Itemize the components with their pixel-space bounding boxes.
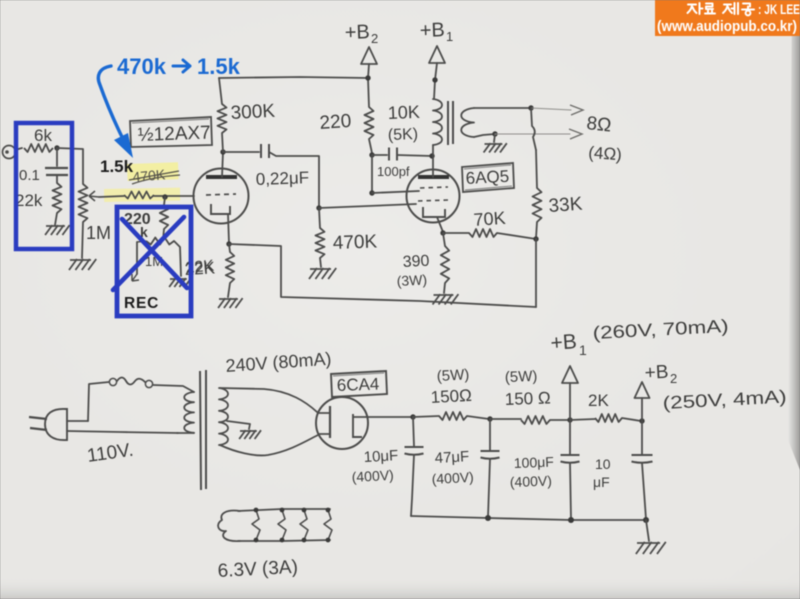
svg-text:8Ω: 8Ω xyxy=(585,113,612,136)
node filter 2 (+B1) xyxy=(567,417,572,422)
svg-text:2K: 2K xyxy=(588,391,609,410)
heater tap xyxy=(278,510,286,540)
6AQ5 screen grid dashed xyxy=(420,187,448,188)
resistor 22K 12AX7 cathode xyxy=(226,241,231,246)
svg-text:(400V): (400V) xyxy=(351,467,394,485)
svg-text:100pf: 100pf xyxy=(377,164,410,179)
node 70K/33K junction xyxy=(533,236,538,241)
mains cord xyxy=(67,420,88,422)
svg-text:150Ω: 150Ω xyxy=(430,386,472,407)
heater tap xyxy=(252,510,260,540)
svg-text:470K: 470K xyxy=(332,231,377,254)
resistor 150ohm (5W) #1 xyxy=(439,412,467,420)
6AQ5 plate xyxy=(418,175,449,179)
OPT secondary coil xyxy=(461,108,474,137)
feedback wire cathode to output rail xyxy=(229,244,536,307)
wire pot bottom to ground xyxy=(82,222,83,258)
resistor 22k (input box) xyxy=(53,183,62,213)
wire 12AX7 cathode down xyxy=(228,214,229,243)
label box 6AQ5 xyxy=(462,163,514,192)
resistor 150ohm (5W) #2 xyxy=(490,418,521,420)
wire 8ohm tap down to 33K (with hop) xyxy=(531,108,536,150)
blue annotation arrow xyxy=(98,66,124,141)
svg-text:10K: 10K xyxy=(387,102,420,123)
HV bottom lead to 6CA4 plate xyxy=(220,435,318,455)
wire to 6AQ5 control grid xyxy=(319,204,416,208)
wire plate node to 300K xyxy=(222,133,223,152)
wire 300K top to +B2 rail xyxy=(219,78,222,104)
wire 220k to rec pot xyxy=(163,229,164,240)
potentiometer 1M xyxy=(79,184,88,222)
svg-text:(4Ω): (4Ω) xyxy=(588,143,623,164)
svg-text:22k: 22k xyxy=(15,191,43,210)
node 6AQ5 cathode xyxy=(440,230,445,235)
svg-text:390: 390 xyxy=(402,253,430,271)
ground secondary xyxy=(494,134,495,142)
tube 6AQ5 envelope xyxy=(407,170,460,223)
wire to 150ohm #1 xyxy=(413,416,439,417)
HV top lead to 6CA4 plate xyxy=(220,388,317,412)
svg-text:10μF: 10μF xyxy=(363,447,398,466)
svg-text:220: 220 xyxy=(319,111,352,134)
node +B2 xyxy=(365,75,370,80)
resistor 33K xyxy=(536,150,537,188)
svg-text:(400V): (400V) xyxy=(431,469,474,487)
node grid / 220k junction xyxy=(162,194,167,199)
capacitor 10uF 400V (first) xyxy=(413,417,414,446)
+B2 arrow (psu) xyxy=(635,382,650,398)
resistor 390 cathode xyxy=(443,233,445,246)
svg-text:+B: +B xyxy=(419,19,445,42)
svg-text:(3W): (3W) xyxy=(396,271,427,289)
bottom edge shading xyxy=(0,578,800,599)
capacitor 10uF (last) xyxy=(641,421,643,454)
ground under 390 xyxy=(434,294,454,296)
yellow highlight over grid resistor xyxy=(104,188,180,202)
svg-text:6AQ5: 6AQ5 xyxy=(465,167,509,188)
node plate/coupling junction xyxy=(220,149,225,154)
wire wiper to grid resistor xyxy=(99,196,124,197)
svg-text:+B: +B xyxy=(550,330,578,355)
svg-text:6k: 6k xyxy=(34,126,52,145)
svg-text:(www.audiopub.co.kr): (www.audiopub.co.kr) xyxy=(657,19,797,35)
node screen junction xyxy=(369,190,374,195)
node filter 1 xyxy=(487,416,492,421)
transformer core xyxy=(200,370,206,490)
resistor 1.5k (was 470K) grid xyxy=(124,192,154,199)
wire node down to feedback rail xyxy=(535,239,537,307)
svg-text:½12AX7: ½12AX7 xyxy=(137,122,211,146)
+B2 arrow xyxy=(361,47,377,64)
wire 6k node to volume pot top xyxy=(57,148,83,184)
capacitor 100uF 400V xyxy=(569,420,571,454)
banner korean text "자료 제공" xyxy=(688,3,755,15)
resistor 300K xyxy=(218,104,227,133)
svg-text:1.5k: 1.5k xyxy=(197,54,241,79)
6AQ5 control grid dashed xyxy=(418,200,448,201)
blue X line 2 xyxy=(113,217,184,290)
12AX7 grid (dashed) xyxy=(206,194,236,195)
wire 100pf node down to screen xyxy=(371,155,373,192)
wire to 12AX7 grid xyxy=(154,195,194,197)
capacitor 0.1 xyxy=(56,148,58,166)
12AX7 cathode xyxy=(211,204,230,214)
svg-text:10: 10 xyxy=(595,456,611,472)
resistor 70K feedback xyxy=(443,232,469,234)
resistor 2K xyxy=(570,419,595,420)
svg-text:1: 1 xyxy=(446,29,453,44)
capacitor 0.22uF coupling xyxy=(223,151,259,153)
ground under 22K xyxy=(219,298,238,300)
wire 6AQ5 cathode to node xyxy=(437,217,443,232)
heater winding 6.3V xyxy=(218,511,240,542)
svg-text:0,22μF: 0,22μF xyxy=(255,168,309,189)
psu ground xyxy=(637,542,660,544)
svg-text:47μF: 47μF xyxy=(434,448,469,467)
faint lead to 4 ohm arrow xyxy=(495,133,570,135)
6CA4 output lead xyxy=(353,416,412,418)
right paper edge shadow xyxy=(788,0,800,470)
svg-text:+B: +B xyxy=(644,362,669,384)
svg-text:2: 2 xyxy=(670,371,677,386)
ground under 22k xyxy=(55,213,57,225)
6CA4 plates bar xyxy=(329,406,331,438)
svg-text:300K: 300K xyxy=(230,101,276,124)
psu bottom rail xyxy=(411,516,646,520)
yellow highlight over crossed 470K text xyxy=(127,162,179,181)
resistor 220 xyxy=(365,107,374,139)
secondary top lead to 8ohm tap xyxy=(474,107,531,109)
node 6k/cap junction xyxy=(54,145,59,150)
fuse xyxy=(109,378,116,385)
transformer HV secondary coil xyxy=(219,388,228,445)
ground rec right xyxy=(170,278,187,280)
rec pot arrow xyxy=(132,274,139,281)
svg-text:+B: +B xyxy=(344,21,370,44)
6CA4 cathode xyxy=(353,414,362,437)
svg-text:1: 1 xyxy=(579,342,587,358)
wire input to 6k xyxy=(15,148,22,150)
svg-text:0.1: 0.1 xyxy=(19,167,40,184)
svg-text:(400V): (400V) xyxy=(510,473,553,490)
faint lead to 8 ohm arrow xyxy=(531,108,571,110)
svg-text:6CA4: 6CA4 xyxy=(336,375,379,395)
svg-text:33K: 33K xyxy=(548,194,584,217)
6AQ5 cathode xyxy=(423,207,445,217)
wire fuse to primary xyxy=(153,385,194,392)
svg-text:(5W): (5W) xyxy=(436,366,469,385)
svg-text:1M: 1M xyxy=(86,223,111,243)
node filter 3 (+B2) xyxy=(639,418,644,423)
OPT core xyxy=(448,101,453,145)
svg-text:(5W): (5W) xyxy=(505,368,538,386)
heater tap xyxy=(324,510,332,540)
svg-text:2: 2 xyxy=(371,31,378,46)
capacitor 100pf xyxy=(372,154,387,156)
ground under 1M pot xyxy=(70,259,91,261)
svg-text:70K: 70K xyxy=(473,208,506,230)
heater tap xyxy=(300,510,308,540)
wire to psu ground xyxy=(646,520,649,541)
tube 12AX7 envelope xyxy=(194,169,249,224)
blue input box xyxy=(16,123,72,249)
rec pot 1M (crossed) xyxy=(137,241,146,242)
resistor 6k xyxy=(24,144,53,152)
+B1 arrow (psu) xyxy=(562,366,578,383)
svg-text:1.5k: 1.5k xyxy=(100,157,134,176)
+B2 supply rail xyxy=(219,77,368,78)
node +B1 xyxy=(432,77,437,82)
ground under 470K xyxy=(310,268,331,270)
svg-text:(5K): (5K) xyxy=(388,126,419,144)
secondary bottom lead xyxy=(474,134,495,137)
HV center tap ground xyxy=(227,421,250,429)
capacitor 47uF 400V xyxy=(489,419,491,450)
svg-text:μF: μF xyxy=(593,474,610,490)
resistor 220k (REC, crossed) xyxy=(164,197,165,205)
svg-text:6.3V (3A): 6.3V (3A) xyxy=(217,557,298,582)
node grid2 junction xyxy=(316,205,321,210)
output transformer primary coil xyxy=(433,99,442,145)
pot wiper arrow xyxy=(89,191,99,201)
svg-text:: JK LEE: : JK LEE xyxy=(758,2,800,17)
AC plug xyxy=(45,409,67,440)
+B1 arrow xyxy=(429,46,445,63)
wire screen grid xyxy=(372,191,419,193)
label box 6CA4 xyxy=(331,371,387,397)
resistor 470K grid leak xyxy=(319,208,320,228)
wire cord up to fuse xyxy=(88,382,109,421)
svg-text:150 Ω: 150 Ω xyxy=(504,388,550,409)
svg-text:470k: 470k xyxy=(117,54,167,79)
node 100pf right xyxy=(429,153,434,158)
banner background xyxy=(655,0,800,36)
12AX7 plate xyxy=(206,175,237,179)
transformer primary coil xyxy=(184,392,194,433)
label box 1/2 12AX7 xyxy=(130,117,212,147)
node rectifier output xyxy=(410,414,415,419)
svg-text:100μF: 100μF xyxy=(514,454,555,471)
tube 6CA4 envelope xyxy=(316,397,368,449)
blue X line 1 xyxy=(122,219,187,288)
svg-text:REC: REC xyxy=(124,295,159,312)
blue REC box xyxy=(117,207,191,316)
input terminal xyxy=(3,146,16,159)
node 220/100pf xyxy=(369,152,374,157)
